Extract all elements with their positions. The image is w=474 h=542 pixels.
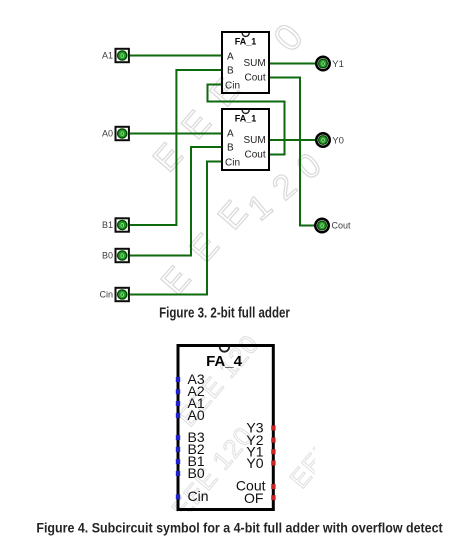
svg-text:A0: A0 bbox=[188, 407, 205, 423]
output pin Y0 bbox=[316, 133, 344, 146]
B0 state disc bbox=[118, 251, 127, 260]
input pin Cin bbox=[99, 288, 128, 301]
svg-text:EEE 120: EEE 120 bbox=[284, 391, 377, 494]
svg-text:Cin: Cin bbox=[99, 290, 113, 300]
B1 pin box bbox=[116, 218, 129, 231]
svg-text:B: B bbox=[227, 143, 234, 154]
FA_4 input pin dot B1 bbox=[176, 459, 180, 464]
wire Cin to FA1b input Cin bbox=[130, 162, 222, 295]
FA_4 input pin dot A3 bbox=[176, 377, 180, 382]
watermark EEE 120 line C2 bbox=[172, 329, 265, 432]
svg-text:B: B bbox=[227, 66, 234, 77]
A0 pin box bbox=[116, 127, 129, 140]
FA_4 output pin dot Y3 bbox=[271, 425, 275, 430]
FA_4 input pin dot A0 bbox=[176, 413, 180, 418]
svg-text:0: 0 bbox=[120, 131, 124, 138]
B1 state disc bbox=[118, 220, 127, 229]
watermark EEE letters upper bbox=[146, 56, 261, 180]
FA_4 input pin dot B3 bbox=[176, 435, 180, 440]
Y0 state disc bbox=[319, 136, 328, 145]
wire FA1a Cout to Cout pin bbox=[269, 78, 315, 226]
watermark 120 digits middle bbox=[241, 137, 339, 228]
svg-text:0: 0 bbox=[120, 292, 124, 299]
svg-text:FA_4: FA_4 bbox=[206, 353, 243, 370]
svg-text:0: 0 bbox=[266, 16, 312, 60]
op block FA_1 upper U1 bbox=[222, 32, 269, 93]
FA_4 notch bbox=[220, 347, 229, 352]
FA_4 output pin dot Y2 bbox=[271, 438, 275, 443]
FA_4 output pin dot OF bbox=[271, 495, 275, 500]
svg-text:A0: A0 bbox=[102, 129, 113, 139]
svg-text:B1: B1 bbox=[102, 220, 113, 230]
svg-text:FA_1: FA_1 bbox=[235, 114, 257, 124]
U1 notch bbox=[242, 33, 249, 37]
Cin state disc bbox=[118, 290, 127, 299]
svg-text:B0: B0 bbox=[188, 465, 205, 481]
svg-text:Cin: Cin bbox=[225, 81, 240, 92]
svg-text:Y0: Y0 bbox=[332, 135, 344, 146]
svg-text:Y1: Y1 bbox=[332, 59, 344, 70]
svg-text:OF: OF bbox=[244, 490, 263, 506]
svg-text:0: 0 bbox=[320, 223, 324, 230]
Cin pin box bbox=[116, 288, 129, 301]
FA_4 input pin dot B0 bbox=[176, 471, 180, 476]
svg-text:0: 0 bbox=[321, 138, 325, 145]
svg-text:0: 0 bbox=[120, 223, 124, 230]
FA_4 input pin dot A1 bbox=[176, 401, 180, 406]
watermark EEE letters middle bbox=[154, 179, 269, 303]
input pin A1 bbox=[102, 49, 129, 62]
op block FA_1 lower U2 bbox=[222, 109, 269, 170]
svg-text:Figure 4. Subcircuit symbol fo: Figure 4. Subcircuit symbol for a 4-bit … bbox=[36, 520, 443, 536]
subcircuit block FA_4 bbox=[178, 346, 273, 510]
A1 state disc bbox=[118, 51, 127, 60]
svg-text:B0: B0 bbox=[102, 251, 113, 261]
wire FA1a SUM to Y1 bbox=[269, 63, 316, 65]
Cout state disc bbox=[318, 221, 327, 230]
svg-text:Cin: Cin bbox=[188, 488, 209, 504]
Y1 pin ring bbox=[316, 57, 329, 70]
svg-text:FA_1: FA_1 bbox=[235, 37, 257, 47]
B0 pin box bbox=[116, 249, 129, 262]
svg-text:Cin: Cin bbox=[225, 158, 240, 169]
output pin Y1 bbox=[316, 57, 344, 70]
svg-text:A: A bbox=[227, 129, 234, 140]
svg-text:Figure 3. 2-bit full adder: Figure 3. 2-bit full adder bbox=[159, 304, 290, 321]
input pin B0 bbox=[102, 249, 129, 262]
watermark digit 0 top right bbox=[266, 16, 312, 60]
FA_4 output pin dot Y1 bbox=[271, 449, 275, 454]
watermark EEE 120 line C3 bbox=[284, 391, 377, 494]
input pin B1 bbox=[102, 218, 129, 231]
FA_4 output pin dot Y0 bbox=[271, 461, 275, 466]
FA_4 input pin dot A2 bbox=[176, 389, 180, 394]
svg-text:0: 0 bbox=[321, 61, 325, 68]
svg-text:SUM: SUM bbox=[244, 58, 266, 69]
svg-text:0: 0 bbox=[120, 53, 124, 60]
Y0 pin ring bbox=[316, 133, 329, 146]
svg-text:A: A bbox=[227, 52, 234, 63]
FA_4 input pin dot B2 bbox=[176, 447, 180, 452]
svg-text:Cout: Cout bbox=[245, 73, 266, 84]
wire B0 to FA1b input B bbox=[130, 147, 222, 256]
U2 notch bbox=[242, 110, 249, 114]
output pin Cout bbox=[315, 219, 351, 232]
wire A1 to FA1a input A bbox=[130, 55, 222, 57]
svg-text:0: 0 bbox=[120, 253, 124, 260]
wire FA1b Cout to FA1a Cin loop bbox=[208, 85, 285, 155]
wire A0 to FA1b input A bbox=[130, 133, 222, 135]
svg-text:Y0: Y0 bbox=[246, 455, 263, 471]
wire B1 to FA1a input B bbox=[130, 70, 222, 225]
A1 pin box bbox=[116, 49, 129, 62]
A0 state disc bbox=[118, 129, 127, 138]
input pin A0 bbox=[102, 127, 129, 140]
svg-text:Cout: Cout bbox=[332, 221, 352, 231]
FA_4 output pin dot Cout bbox=[271, 484, 275, 489]
FA_4 input pin dot Cin bbox=[176, 494, 180, 499]
svg-text:Cout: Cout bbox=[245, 150, 266, 161]
svg-text:SUM: SUM bbox=[244, 135, 266, 146]
wire FA1b SUM to Y0 bbox=[269, 139, 316, 141]
svg-text:A1: A1 bbox=[102, 51, 113, 61]
Y1 state disc bbox=[319, 59, 328, 68]
watermark EEE 120 line C1 bbox=[166, 421, 259, 524]
Cout pin ring bbox=[315, 219, 328, 232]
